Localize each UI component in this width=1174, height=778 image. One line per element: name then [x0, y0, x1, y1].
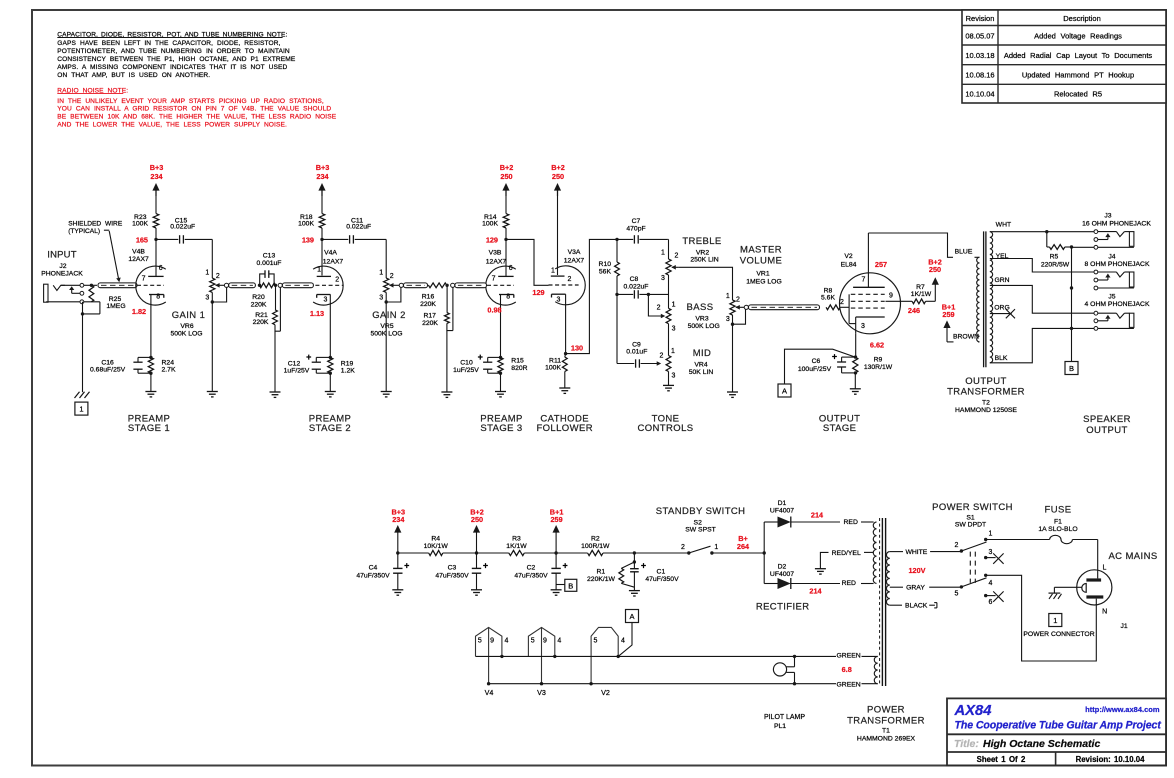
shielded wire (input to V4B grid) [98, 283, 137, 288]
svg-text:R25: R25 [109, 296, 122, 303]
svg-text:250K LIN: 250K LIN [690, 257, 718, 264]
svg-text:250: 250 [500, 172, 512, 181]
svg-text:250: 250 [471, 515, 483, 524]
capacitor C9 [617, 294, 661, 367]
svg-text:9: 9 [543, 638, 547, 645]
svg-text:9: 9 [490, 638, 494, 645]
switch S1 pole 2 [955, 574, 993, 598]
svg-text:1MEG: 1MEG [106, 303, 125, 310]
svg-text:1K/1W: 1K/1W [911, 291, 932, 298]
svg-text:1: 1 [714, 544, 718, 551]
svg-text:Description: Description [1063, 14, 1101, 23]
svg-text:BE BETWEEN 10K AND 68K. THE H: BE BETWEEN 10K AND 68K. THE HIGHER THE V… [57, 114, 336, 121]
svg-text:WHITE: WHITE [905, 549, 927, 556]
svg-text:130R/1W: 130R/1W [864, 364, 893, 371]
svg-text:4: 4 [621, 638, 625, 645]
svg-text:Sheet 1 Of 2: Sheet 1 Of 2 [977, 755, 1026, 764]
output stage label [819, 413, 860, 434]
svg-text:Added Voltage Readings: Added Voltage Readings [1034, 31, 1122, 40]
svg-text:7: 7 [492, 276, 496, 283]
svg-text:08.05.07: 08.05.07 [965, 31, 994, 40]
svg-text:J3: J3 [1104, 213, 1111, 220]
svg-text:+: + [832, 352, 837, 362]
wire EL84 cathode [854, 334, 857, 375]
svg-text:220K: 220K [420, 301, 436, 308]
svg-text:3: 3 [861, 323, 865, 330]
svg-text:47uF/350V: 47uF/350V [435, 573, 469, 580]
svg-text:F1: F1 [1054, 519, 1062, 526]
svg-text:2: 2 [955, 542, 959, 549]
preamp stage 3 label [480, 413, 523, 434]
capacitor C1 [629, 551, 679, 596]
svg-text:BASS: BASS [687, 302, 714, 313]
svg-text:+: + [483, 561, 488, 571]
svg-text:1: 1 [671, 348, 675, 355]
chassis ground (input) [75, 392, 90, 398]
svg-text:V2: V2 [844, 253, 853, 260]
node box 1 (mains) [1049, 614, 1062, 627]
resistor R20 [251, 283, 278, 309]
svg-text:V2: V2 [601, 688, 610, 697]
PT HV secondary coil [873, 522, 876, 583]
svg-text:R9: R9 [874, 356, 883, 363]
svg-text:YOU CAN INSTALL A GRID RESISTO: YOU CAN INSTALL A GRID RESISTOR ON PIN 7… [57, 106, 331, 113]
capacitor C10 / resistor R15 cathode network [453, 294, 527, 397]
svg-text:AC MAINS: AC MAINS [1108, 551, 1157, 562]
bass labels [687, 302, 720, 330]
svg-text:R20: R20 [252, 294, 265, 301]
svg-text:J2: J2 [59, 263, 66, 270]
radio noise note text [57, 88, 336, 129]
svg-text:TREBLE: TREBLE [682, 236, 721, 247]
svg-text:8: 8 [156, 293, 160, 300]
svg-text:HAMMOND 1250SE: HAMMOND 1250SE [955, 407, 1017, 414]
resistor R16 [420, 283, 449, 308]
preamp stage 1 label [128, 413, 171, 434]
svg-text:3: 3 [672, 373, 676, 380]
svg-text:4: 4 [557, 638, 561, 645]
resistor R18 [298, 214, 325, 240]
svg-text:C12: C12 [288, 360, 301, 367]
svg-text:POWER CONNECTOR: POWER CONNECTOR [1023, 631, 1094, 638]
svg-text:L: L [1102, 565, 1106, 572]
svg-text:WHT: WHT [996, 222, 1011, 229]
svg-text:V4B: V4B [132, 249, 145, 256]
V4 heater [476, 627, 509, 697]
svg-text:Revision: 10.10.04: Revision: 10.10.04 [1076, 755, 1145, 764]
svg-text:V3: V3 [537, 688, 546, 697]
svg-text:RED: RED [844, 519, 858, 526]
heater rail bottom [489, 682, 878, 685]
svg-text:0.022uF: 0.022uF [346, 224, 371, 231]
capacitor C12 / resistor R19 cathode network [284, 294, 356, 397]
svg-text:1: 1 [79, 405, 83, 414]
GREEN label (top) [837, 652, 861, 659]
input label [41, 250, 83, 278]
pot VR5 (GAIN 2) [379, 269, 401, 397]
svg-text:RECTIFIER: RECTIFIER [756, 601, 810, 612]
svg-text:250: 250 [929, 265, 941, 274]
svg-text:5: 5 [531, 638, 535, 645]
svg-text:STAGE 1: STAGE 1 [128, 423, 170, 434]
svg-text:2: 2 [335, 277, 339, 284]
capacitor C4 [356, 553, 409, 595]
wire V3A cathode to tone stack [564, 239, 617, 355]
B+2 supply arrow (stage 3) [500, 163, 514, 214]
svg-text:47uF/350V: 47uF/350V [645, 576, 679, 583]
svg-text:AND THE LOWER THE VALUE, THE L: AND THE LOWER THE VALUE, THE LESS POWER … [57, 121, 287, 128]
svg-text:V4: V4 [485, 688, 494, 697]
svg-text:0.022uF: 0.022uF [624, 284, 649, 291]
svg-text:STAGE 3: STAGE 3 [480, 423, 522, 434]
svg-text:139: 139 [302, 236, 314, 245]
svg-text:3: 3 [324, 296, 328, 303]
mains earth ground [1049, 587, 1082, 599]
svg-text:SPEAKER: SPEAKER [1083, 414, 1131, 425]
svg-text:2: 2 [216, 273, 220, 280]
power switch labels [932, 502, 1013, 529]
svg-text:A: A [782, 387, 787, 396]
svg-text:234: 234 [392, 515, 405, 524]
svg-text:YEL: YEL [996, 253, 1009, 260]
AC mains label [1108, 551, 1157, 562]
cathode follower label [536, 413, 593, 434]
jack J5 [1085, 294, 1150, 331]
title block [947, 698, 1166, 765]
svg-text:264: 264 [737, 542, 750, 551]
svg-text:B: B [568, 581, 573, 590]
B+2 arrow (screen) [928, 257, 942, 301]
OT core [984, 231, 986, 367]
tube V3A [549, 249, 586, 305]
svg-text:47uF/350V: 47uF/350V [514, 573, 548, 580]
diode D1 [764, 500, 873, 528]
svg-text:R11: R11 [549, 357, 561, 364]
svg-text:C8: C8 [630, 276, 639, 283]
svg-text:0.98: 0.98 [487, 305, 501, 314]
resistor R17 [422, 285, 453, 330]
svg-text:R17: R17 [423, 313, 436, 320]
svg-text:820R: 820R [511, 365, 527, 372]
svg-text:130: 130 [571, 343, 583, 352]
svg-text:220K: 220K [253, 319, 269, 326]
svg-text:500K LOG: 500K LOG [688, 323, 720, 330]
svg-text:1: 1 [379, 269, 383, 276]
svg-text:R1: R1 [596, 568, 605, 575]
svg-text:2: 2 [840, 299, 844, 306]
svg-text:1: 1 [205, 269, 209, 276]
diode D2 [764, 563, 873, 589]
svg-text:500K LOG: 500K LOG [370, 331, 402, 338]
svg-text:234: 234 [316, 172, 329, 181]
GRAY primary wire [890, 584, 962, 591]
svg-text:12AX7: 12AX7 [564, 258, 585, 265]
svg-text:R3: R3 [512, 535, 521, 542]
svg-text:100R/1W: 100R/1W [581, 543, 610, 550]
switch S1 pin 3 [984, 549, 1004, 564]
svg-text:VR5: VR5 [380, 323, 393, 330]
mid labels [689, 348, 714, 376]
voltage 1.13 [310, 309, 324, 318]
svg-text:6: 6 [509, 265, 513, 272]
svg-text:3: 3 [205, 295, 209, 302]
svg-text:0.001uF: 0.001uF [257, 260, 282, 267]
V3 heater [528, 627, 561, 697]
svg-text:1: 1 [551, 267, 555, 274]
shielded wire (R20 to V4A grid) [278, 283, 313, 288]
svg-text:POTENTIOMETER, AND TUBE NUMBER: POTENTIOMETER, AND TUBE NUMBERING IN ORD… [57, 48, 290, 55]
svg-text:VR2: VR2 [696, 249, 709, 256]
svg-text:2: 2 [568, 276, 572, 283]
svg-text:R4: R4 [431, 535, 440, 542]
svg-text:250: 250 [552, 172, 564, 181]
svg-text:5: 5 [594, 638, 598, 645]
svg-text:220K/1W: 220K/1W [587, 576, 616, 583]
svg-text:VOLUME: VOLUME [740, 255, 783, 266]
svg-text:100uF/25V: 100uF/25V [798, 366, 832, 373]
svg-text:9: 9 [889, 293, 893, 300]
svg-text:B: B [1069, 364, 1074, 373]
svg-text:3: 3 [661, 275, 665, 282]
svg-text:257: 257 [875, 260, 887, 269]
switch S1 link [970, 552, 975, 583]
svg-text:7: 7 [862, 276, 866, 283]
resistor R8 [821, 288, 849, 310]
tube V4B [128, 249, 165, 305]
svg-text:8: 8 [506, 293, 510, 300]
svg-text:UF4007: UF4007 [770, 571, 794, 578]
svg-text:4: 4 [504, 638, 508, 645]
svg-text:BLK: BLK [995, 355, 1008, 362]
svg-text:J5: J5 [1108, 294, 1115, 301]
svg-text:50K LIN: 50K LIN [689, 369, 714, 376]
B+2 node (supply) [470, 507, 484, 554]
BLK tap wire [990, 328, 1094, 362]
svg-text:1.13: 1.13 [310, 309, 324, 318]
svg-text:1uF/25V: 1uF/25V [284, 368, 310, 375]
svg-text:1: 1 [661, 250, 665, 257]
svg-text:C4: C4 [369, 565, 378, 572]
standby switch labels [656, 506, 746, 534]
svg-text:R8: R8 [824, 288, 833, 295]
svg-text:A: A [629, 612, 634, 621]
svg-text:214: 214 [809, 587, 822, 596]
svg-text:2: 2 [657, 305, 661, 312]
RED/YEL center tap [815, 550, 874, 574]
voltage 139 [302, 236, 314, 245]
input ground wire [81, 302, 100, 392]
svg-text:Relocated R5: Relocated R5 [1054, 90, 1102, 99]
B+3 supply arrow (stage 2) [316, 163, 330, 214]
svg-text:214: 214 [811, 510, 824, 519]
svg-text:BLACK: BLACK [905, 602, 928, 609]
node box A (heater) [618, 610, 638, 657]
voltage 257 [875, 260, 887, 269]
PT shield [879, 518, 881, 686]
speaker output label [1083, 414, 1131, 436]
svg-text:16 OHM PHONEJACK: 16 OHM PHONEJACK [1082, 221, 1151, 228]
svg-text:47uF/350V: 47uF/350V [356, 573, 390, 580]
svg-text:MID: MID [693, 348, 712, 359]
svg-text:1K/1W: 1K/1W [506, 543, 527, 550]
svg-text:TRANSFORMER: TRANSFORMER [847, 716, 925, 727]
voltage 214 (bottom) [809, 587, 822, 596]
svg-text:10.10.04: 10.10.04 [965, 90, 994, 99]
tone stack input node [615, 238, 618, 241]
svg-text:10K/1W: 10K/1W [424, 543, 449, 550]
svg-text:(TYPICAL): (TYPICAL) [68, 228, 100, 235]
resistor R2 [581, 535, 610, 555]
svg-text:Title:: Title: [954, 738, 979, 750]
svg-text:R19: R19 [341, 360, 354, 367]
shield drain (stage3 input) [441, 285, 453, 397]
capacitor C15 [156, 217, 212, 243]
input jack J2 [44, 283, 84, 303]
WHITE primary wire [890, 549, 962, 556]
voltage 214 (top) [811, 510, 824, 519]
voltage 1.82 [132, 307, 146, 316]
YEL tap wire [990, 253, 1094, 272]
svg-text:1: 1 [726, 293, 730, 300]
capacitor C11 [322, 217, 386, 243]
svg-text:165: 165 [136, 236, 148, 245]
fuse F1 [986, 535, 1098, 543]
svg-text:D2: D2 [778, 563, 787, 570]
rectifier label [756, 601, 810, 612]
svg-text:D1: D1 [778, 500, 787, 507]
resistor R9 [850, 356, 893, 394]
capacitor C2 [514, 553, 567, 595]
gain 2 labels [370, 310, 405, 338]
svg-text:J4: J4 [1108, 253, 1115, 260]
heater rail top [476, 655, 878, 658]
svg-text:STANDBY SWITCH: STANDBY SWITCH [656, 506, 746, 517]
svg-text:MASTER: MASTER [740, 245, 782, 256]
voltage 120V [908, 566, 925, 575]
supply rail wire [398, 552, 689, 554]
svg-text:234: 234 [150, 172, 163, 181]
svg-text:1: 1 [1053, 616, 1057, 625]
svg-text:100K: 100K [132, 221, 148, 228]
svg-text:V3B: V3B [489, 249, 502, 256]
svg-text:SW DPDT: SW DPDT [955, 522, 986, 529]
svg-text:AMPS. A MISSING COMPONENT IND: AMPS. A MISSING COMPONENT INDICATES THAT… [57, 64, 287, 71]
svg-text:100K: 100K [298, 221, 314, 228]
svg-text:6: 6 [159, 265, 163, 272]
BLACK primary wire (unused) [890, 602, 937, 609]
svg-text:TRANSFORMER: TRANSFORMER [947, 386, 1025, 397]
power transformer labels [847, 704, 925, 742]
svg-text:3: 3 [557, 297, 561, 304]
svg-text:2: 2 [681, 544, 685, 551]
svg-text:10.08.16: 10.08.16 [965, 71, 994, 80]
RED label (bottom) [842, 580, 856, 587]
wire EL84 plate to OT [868, 233, 979, 257]
svg-text:12AX7: 12AX7 [323, 259, 344, 266]
svg-text:POWER: POWER [867, 704, 905, 715]
B+1 node (supply) [550, 507, 564, 554]
svg-text:T1: T1 [882, 727, 890, 734]
svg-text:PHONEJACK: PHONEJACK [41, 271, 83, 278]
svg-text:OUTPUT: OUTPUT [1086, 425, 1127, 436]
pot VR1 (master volume) [726, 293, 746, 398]
shielded wire pointer arrow [109, 231, 121, 282]
B+2 supply arrow (cathode follower) [551, 163, 565, 275]
shielded wire (VR1 to R8) [744, 305, 819, 310]
mid pot VR4 [660, 324, 676, 391]
svg-text:5.6K: 5.6K [821, 295, 835, 302]
svg-text:R10: R10 [599, 261, 612, 268]
wire V3B plate to V3A grid [506, 239, 549, 285]
svg-text:C7: C7 [632, 218, 641, 225]
svg-text:4: 4 [988, 580, 992, 587]
jack J3 [1082, 213, 1151, 250]
svg-text:S1: S1 [966, 514, 975, 521]
neutral return wire [986, 575, 1097, 661]
node stage2 plate [320, 238, 323, 276]
resistor R5 [1041, 232, 1073, 269]
svg-text:120V: 120V [908, 566, 925, 575]
svg-text:T2: T2 [982, 399, 990, 406]
svg-text:RED: RED [842, 580, 856, 587]
svg-text:129: 129 [532, 288, 544, 297]
capacitor C3 [435, 553, 488, 595]
node box A (output stage) [778, 384, 791, 397]
resistor R4 [424, 535, 449, 555]
svg-text:12AX7: 12AX7 [486, 259, 507, 266]
svg-text:FOLLOWER: FOLLOWER [536, 423, 593, 434]
OT secondary coil [990, 232, 993, 363]
gain 1 labels [170, 310, 205, 338]
resistor R7 [886, 284, 936, 304]
svg-text:GREEN: GREEN [837, 681, 861, 688]
svg-text:7: 7 [142, 276, 146, 283]
svg-text:1A SLO-BLO: 1A SLO-BLO [1038, 526, 1077, 533]
svg-text:2: 2 [390, 273, 394, 280]
svg-text:R24: R24 [162, 359, 175, 366]
svg-text:B+2: B+2 [551, 163, 565, 172]
svg-text:VR6: VR6 [180, 323, 193, 330]
svg-text:STAGE: STAGE [823, 423, 857, 434]
pot VR6 (GAIN 1) [205, 269, 226, 397]
tone controls label [638, 413, 694, 434]
svg-text:3: 3 [726, 316, 730, 323]
svg-text:ON THAT AMP, BUT IS USED ON AN: ON THAT AMP, BUT IS USED ON ANOTHER. [57, 72, 210, 79]
svg-text:+: + [306, 352, 311, 362]
svg-text:BROWN: BROWN [953, 333, 979, 340]
svg-text:10.03.18: 10.03.18 [965, 51, 994, 60]
jack J4 [1085, 253, 1150, 290]
svg-text:AX84: AX84 [954, 703, 992, 719]
bass pot VR3 [648, 294, 675, 332]
svg-text:1MEG LOG: 1MEG LOG [746, 278, 782, 285]
svg-text:BLUE: BLUE [955, 248, 973, 255]
svg-text:246: 246 [908, 306, 920, 315]
voltage 129 (plate) [486, 236, 498, 245]
svg-text:VR3: VR3 [695, 315, 708, 322]
svg-text:100K: 100K [482, 221, 498, 228]
svg-text:3: 3 [672, 326, 676, 333]
svg-text:R2: R2 [591, 535, 600, 542]
ORG tap wire (unused) [990, 305, 1015, 319]
brown wire label [953, 333, 979, 340]
svg-text:IN THE UNLIKELY EVENT YOUR AMP: IN THE UNLIKELY EVENT YOUR AMP STARTS PI… [57, 98, 324, 105]
svg-text:The Cooperative Tube Guitar Am: The Cooperative Tube Guitar Amp Project [955, 720, 1162, 732]
svg-text:2: 2 [736, 297, 740, 304]
capacitor C16 / resistor R24 cathode network [90, 294, 176, 397]
svg-text:C10: C10 [460, 360, 473, 367]
svg-text:Updated Hammond PT Hookup: Updated Hammond PT Hookup [1022, 71, 1134, 80]
